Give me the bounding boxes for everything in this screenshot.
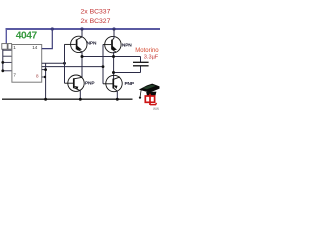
svg-text:Motorino: Motorino (135, 48, 159, 54)
svg-text:3.3µF: 3.3µF (144, 55, 159, 61)
svg-text:1: 1 (13, 45, 16, 50)
svg-text:7: 7 (13, 72, 16, 77)
svg-text:NPN: NPN (87, 41, 97, 47)
svg-text:14: 14 (32, 45, 38, 50)
svg-text:PNP: PNP (125, 81, 135, 87)
svg-text:2x BC337: 2x BC337 (81, 9, 111, 16)
svg-text:8: 8 (36, 73, 39, 78)
svg-text:PNP: PNP (85, 81, 95, 87)
svg-text:ww: ww (153, 106, 160, 110)
svg-text:2x BC327: 2x BC327 (81, 18, 111, 25)
svg-text:4047: 4047 (16, 31, 38, 42)
svg-text:NPN: NPN (122, 42, 132, 48)
